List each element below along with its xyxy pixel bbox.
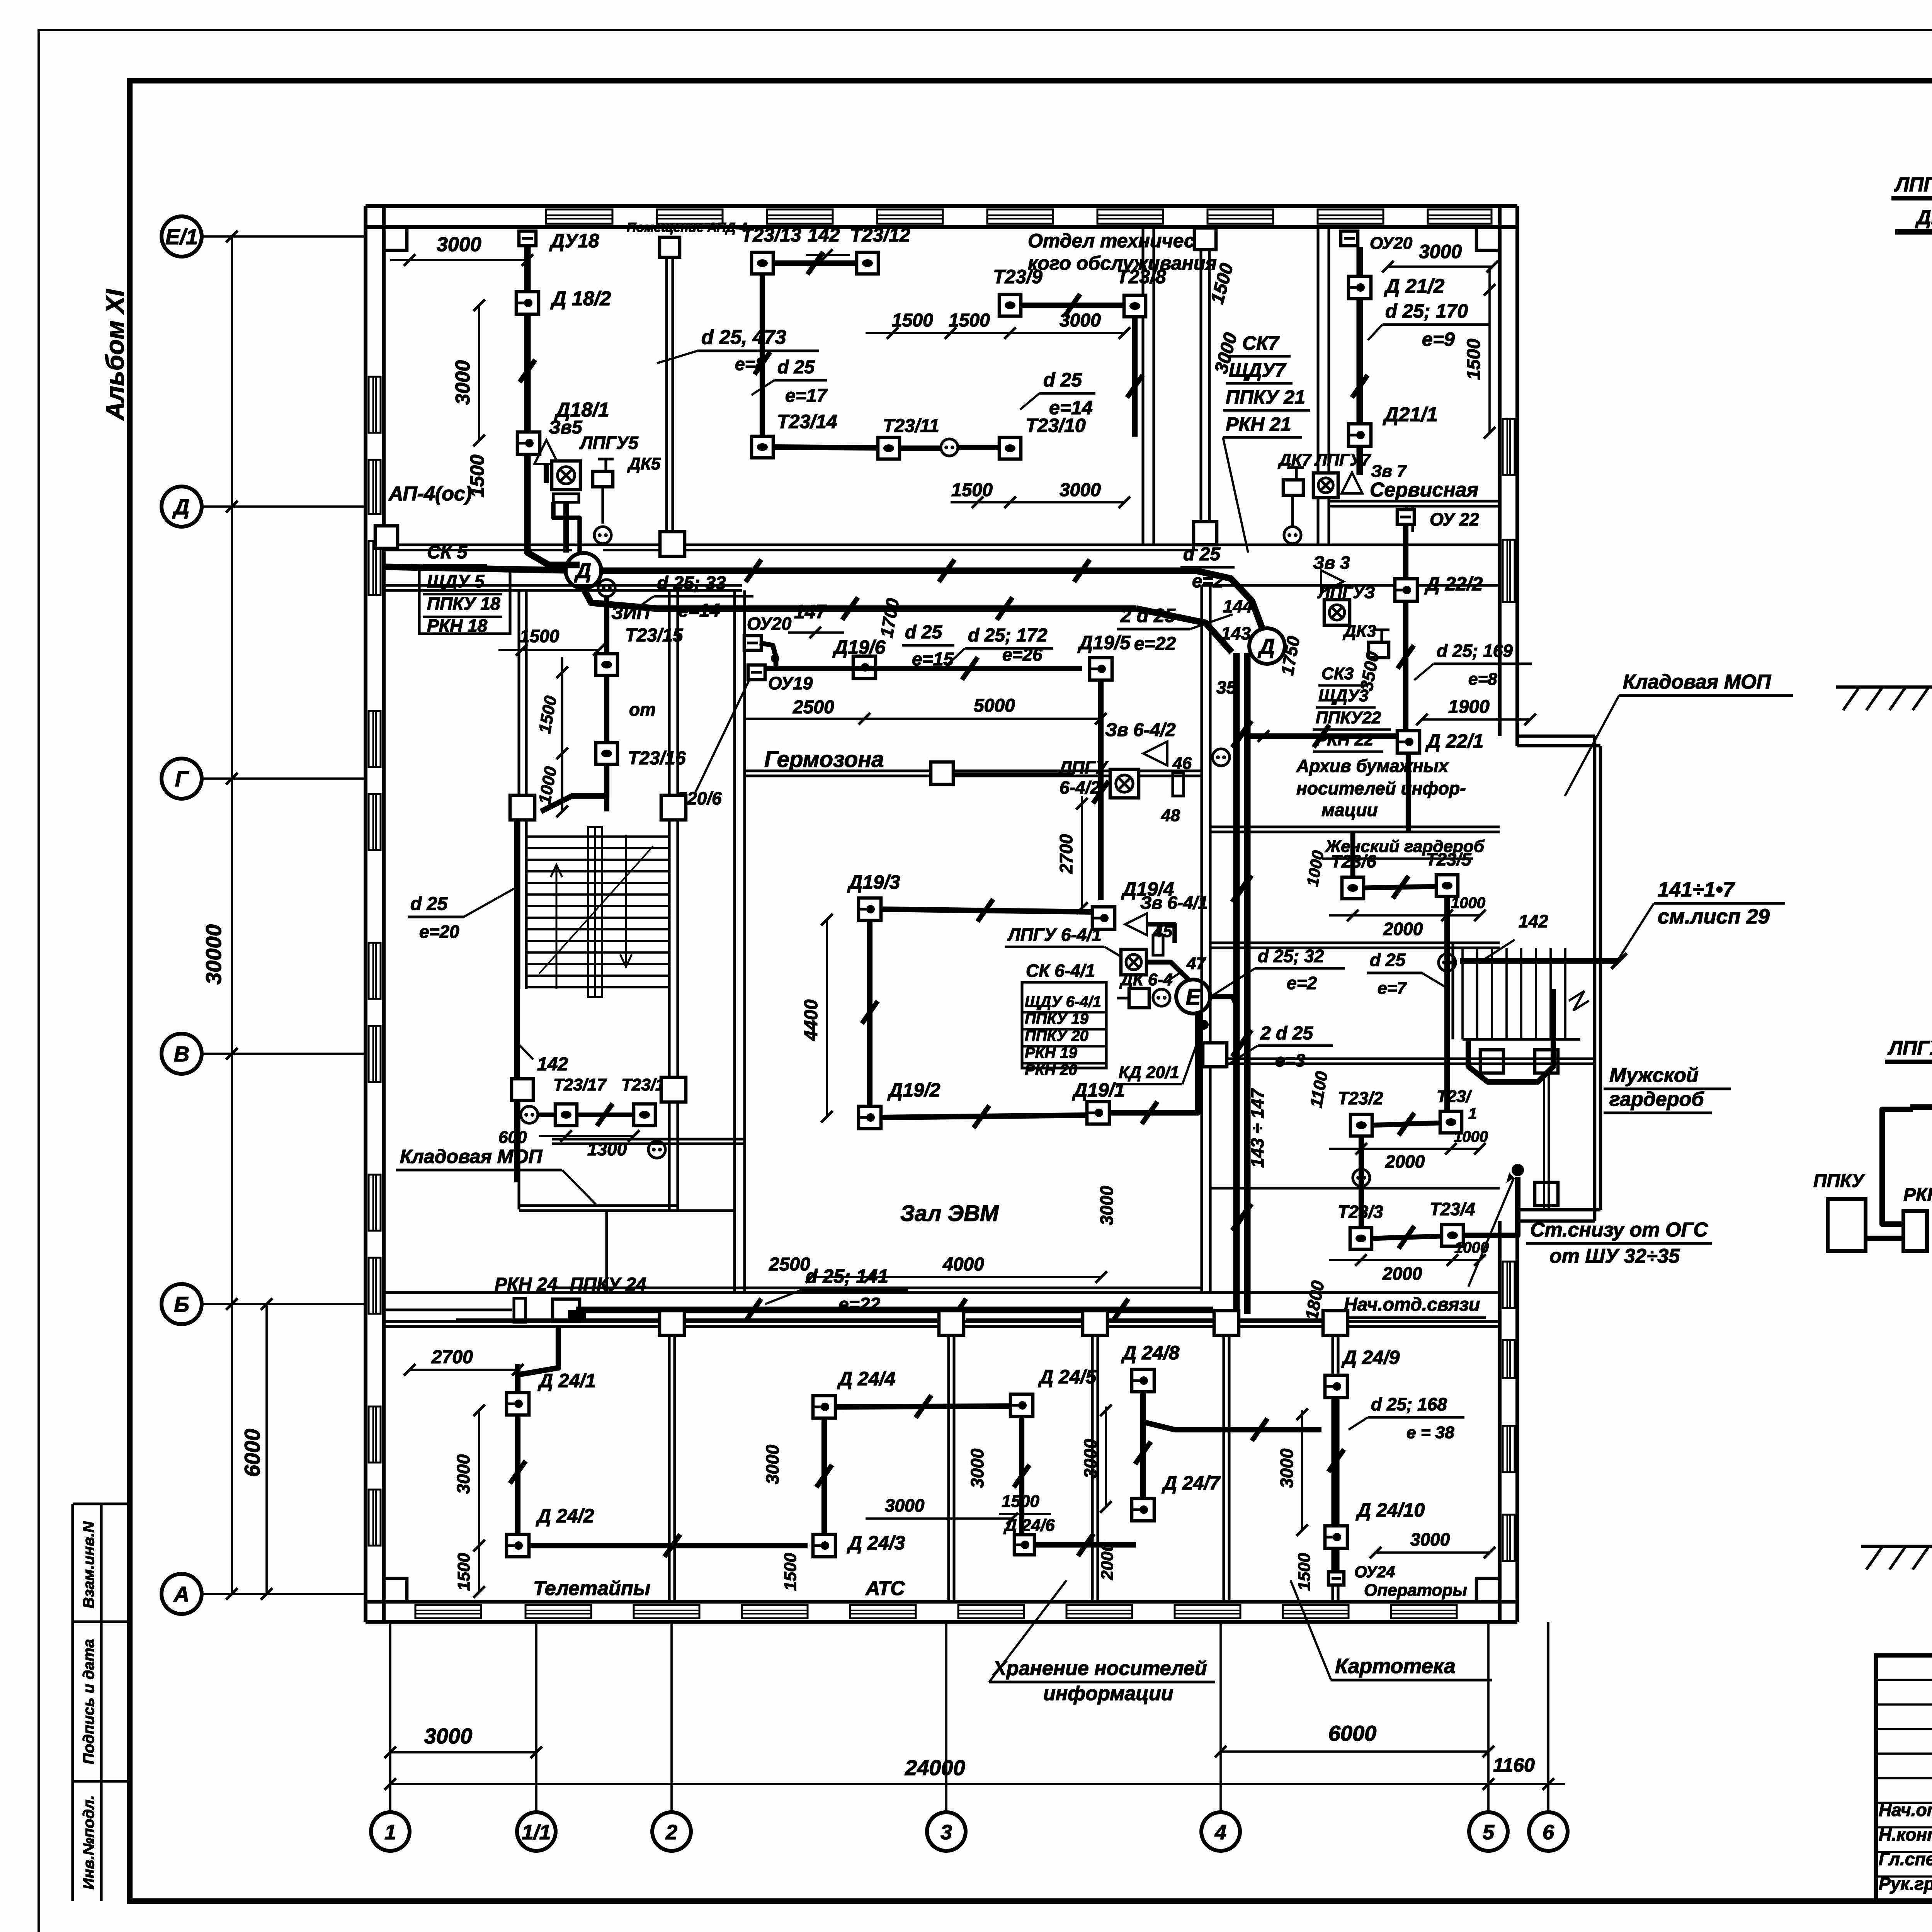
svg-text:46: 46 — [1172, 754, 1192, 773]
svg-text:Т23/: Т23/ — [1437, 1087, 1473, 1106]
teletype T23/16 — [596, 743, 617, 764]
svg-text:d 25; 168: d 25; 168 — [1371, 1394, 1447, 1414]
zip socket — [598, 580, 615, 597]
svg-text:ППКУ 18: ППКУ 18 — [427, 594, 500, 614]
riser D19/5 down — [1098, 680, 1104, 900]
teletype T23/15 — [596, 654, 617, 675]
axis vertical leader lines left — [231, 236, 233, 1594]
svg-text:АТС: АТС — [865, 1577, 905, 1600]
svg-text:Т23/12: Т23/12 — [850, 224, 910, 246]
detector D24/6 — [1014, 1535, 1034, 1555]
svg-text:3000: 3000 — [762, 1444, 782, 1484]
svg-text:ОУ19: ОУ19 — [768, 673, 813, 693]
svg-text:от ШУ 32÷35: от ШУ 32÷35 — [1549, 1245, 1680, 1267]
svg-text:e=8: e=8 — [1468, 670, 1497, 689]
svg-text:Д 24/6: Д 24/6 — [1003, 1516, 1055, 1535]
detector OU20c — [744, 636, 761, 650]
svg-text:ОУ20: ОУ20 — [747, 614, 792, 634]
detector D24/2 — [507, 1534, 529, 1557]
stairs right walls — [1451, 943, 1454, 1039]
wire below node E — [1196, 1014, 1198, 1113]
svg-text:1300: 1300 — [587, 1139, 627, 1159]
svg-text:e=2: e=2 — [1287, 973, 1317, 993]
svg-text:ЛПГУ: ЛПГУ — [1058, 757, 1109, 777]
uzel E ground hatch — [1866, 1546, 1883, 1570]
svg-text:e=26: e=26 — [1002, 645, 1043, 665]
teletype T23/18 — [634, 1104, 655, 1126]
dim 2500 5000 germozona — [745, 718, 1101, 720]
svg-text:d 25: d 25 — [1370, 950, 1406, 970]
svg-text:Архив бумажных: Архив бумажных — [1296, 756, 1449, 776]
wire T23/13 to T23/12 — [773, 260, 857, 266]
detector D19/5 — [1090, 658, 1112, 680]
svg-text:e=22: e=22 — [1134, 634, 1176, 654]
dims zip vert — [561, 657, 563, 811]
corner pilaster bottom-left — [384, 1578, 407, 1602]
riser T23/6 — [1350, 832, 1355, 878]
svg-text:А: А — [173, 1582, 189, 1606]
machine hall interior wall piece — [552, 1138, 745, 1140]
detector D18/1 — [517, 432, 540, 454]
svg-text:ЛПГУЗ: ЛПГУЗ — [1317, 583, 1375, 602]
bell Zv7 — [1342, 473, 1362, 493]
riser servisnaya pair — [1405, 506, 1408, 532]
wire T23/11 socket T23/10 — [900, 446, 941, 451]
svg-text:Помещение АПД-4: Помещение АПД-4 — [627, 220, 747, 235]
bottom trunk cable — [384, 1308, 512, 1311]
svg-text:Сервисная: Сервисная — [1370, 479, 1478, 501]
svg-text:1500: 1500 — [1464, 338, 1484, 380]
outer wall bottom — [366, 1600, 1517, 1604]
svg-text:1000: 1000 — [1454, 1128, 1488, 1145]
svg-text:147: 147 — [794, 601, 827, 622]
dim 1500 zip — [498, 649, 599, 651]
svg-text:1000: 1000 — [1454, 1239, 1489, 1256]
svg-text:Т23/4: Т23/4 — [1430, 1199, 1475, 1219]
svg-text:Д19/2: Д19/2 — [887, 1079, 940, 1101]
svg-text:ДК 6-4: ДК 6-4 — [1119, 970, 1173, 989]
svg-text:e=17: e=17 — [785, 386, 828, 406]
wire T23/9 to T23/8 — [1021, 303, 1124, 308]
riser D24 1-2 — [515, 1415, 520, 1536]
bottom corridor wall north — [384, 1291, 1500, 1294]
svg-text:d 25; 170: d 25; 170 — [1385, 300, 1468, 322]
svg-text:1500: 1500 — [1295, 1553, 1314, 1591]
corridor shelf lines — [456, 1318, 659, 1321]
node E circle — [1176, 980, 1210, 1014]
socket below T23/2 — [1353, 1169, 1370, 1186]
corner pilaster top-right — [1476, 227, 1500, 250]
svg-text:СК3: СК3 — [1321, 664, 1354, 683]
riser T23/8 — [1132, 317, 1138, 437]
svg-text:ЛПГУ; Зв: ЛПГУ; Зв — [1894, 173, 1932, 196]
socket below T23/18 — [648, 1141, 665, 1158]
corner pilaster top-left — [384, 227, 407, 250]
svg-text:Инв.№подл.: Инв.№подл. — [80, 1795, 97, 1889]
svg-text:Зв 7: Зв 7 — [1371, 462, 1407, 481]
svg-text:d 25, 473: d 25, 473 — [701, 326, 786, 349]
svg-text:Подпись и дата: Подпись и дата — [80, 1639, 97, 1764]
svg-text:Т23/9: Т23/9 — [993, 266, 1043, 287]
svg-text:РКН 19: РКН 19 — [1025, 1044, 1078, 1061]
svg-text:1160: 1160 — [1493, 1754, 1535, 1776]
svg-text:24000: 24000 — [905, 1755, 965, 1780]
svg-text:142: 142 — [1519, 911, 1548, 931]
svg-text:Д 24/7: Д 24/7 — [1162, 1472, 1221, 1494]
svg-text:3000: 3000 — [1060, 310, 1101, 331]
svg-text:ЩДУ7: ЩДУ7 — [1229, 359, 1286, 381]
svg-text:2700: 2700 — [1056, 834, 1076, 874]
socket below node D — [1213, 749, 1230, 766]
detector D24/1 — [507, 1393, 529, 1415]
svg-text:1500: 1500 — [454, 1553, 473, 1591]
svg-text:Д 21/2: Д 21/2 — [1384, 275, 1444, 298]
svg-text:600: 600 — [498, 1128, 527, 1147]
svg-text:ОУ 22: ОУ 22 — [1430, 509, 1479, 529]
axis bubble 3 — [927, 1812, 966, 1851]
dim 3000 D21 room top — [1388, 265, 1492, 268]
svg-text:ЛПГУ7: ЛПГУ7 — [1314, 451, 1372, 469]
socket stairs — [1439, 954, 1456, 971]
svg-text:e=7: e=7 — [1378, 979, 1407, 998]
uzel E wire left ppku-rkn — [1866, 1236, 1903, 1241]
teletype T23/6 — [1342, 877, 1364, 899]
axis bubble 1 — [371, 1812, 410, 1851]
svg-text:Д 22/1: Д 22/1 — [1425, 730, 1483, 752]
svg-text:Д 24/3: Д 24/3 — [847, 1532, 905, 1554]
dim 2000 1000 nach — [1329, 1259, 1480, 1261]
axis bubble 6 — [1529, 1812, 1568, 1851]
detector D22/2 — [1395, 579, 1417, 601]
detector OU18 — [519, 231, 536, 246]
axis bubble 5 — [1469, 1812, 1508, 1851]
bottom dim row 6000 — [1221, 1750, 1488, 1753]
axis bubble Е/1 — [162, 216, 202, 257]
corridor trunk cable horizontal — [601, 568, 1198, 574]
svg-text:Операторы: Операторы — [1364, 1581, 1467, 1600]
svg-text:см.лисп 29: см.лисп 29 — [1658, 905, 1770, 928]
svg-text:Д 22/2: Д 22/2 — [1424, 573, 1483, 595]
svg-text:143: 143 — [1221, 623, 1251, 643]
junction dot below E — [1199, 1020, 1209, 1030]
dk DK7 — [1283, 480, 1303, 495]
dim 3000 APD top — [390, 259, 527, 261]
teletype T23/10 — [999, 437, 1021, 459]
svg-text:3000: 3000 — [437, 233, 481, 256]
teletype T23/14 — [752, 436, 773, 458]
right wall windows lower — [1503, 1262, 1515, 1308]
svg-text:АП-4(ос): АП-4(ос) — [388, 483, 472, 505]
svg-text:Д: Д — [172, 495, 189, 519]
detector D22/1 — [1397, 731, 1420, 753]
node D circle right — [1249, 628, 1285, 664]
svg-text:e=20: e=20 — [419, 922, 459, 942]
junction box below E — [1203, 1043, 1227, 1067]
corridor junction boxes — [660, 1311, 684, 1335]
svg-text:Рук.гр.: Рук.гр. — [1879, 1874, 1932, 1894]
svg-text:СК 5: СК 5 — [427, 542, 468, 563]
axis bubble А — [162, 1574, 202, 1614]
svg-text:3000: 3000 — [452, 360, 474, 405]
trunk bend to node D right — [1196, 571, 1263, 630]
svg-text:3000: 3000 — [1080, 1439, 1100, 1478]
svg-text:ЛПГУ; Зв: ЛПГУ; Зв — [1887, 1037, 1932, 1060]
svg-text:мации: мации — [1321, 800, 1378, 820]
svg-text:Телетайпы: Телетайпы — [533, 1577, 650, 1600]
teletype T23/3 — [1350, 1228, 1372, 1249]
detector D24/4 — [813, 1396, 835, 1418]
wire T2317-T2318 — [538, 1112, 556, 1117]
svg-text:144: 144 — [1223, 596, 1253, 616]
dim 2000 1000 muzh — [1329, 1148, 1480, 1150]
zal evm south wall — [552, 1286, 1202, 1289]
svg-text:Т23/16: Т23/16 — [628, 748, 686, 769]
socket at E — [1153, 989, 1170, 1006]
wire D24/6 right — [1034, 1542, 1136, 1548]
detector D19/6 — [853, 656, 876, 679]
dim 4400 vert — [826, 920, 828, 1117]
teletype T23/12 — [857, 252, 878, 274]
svg-text:1500: 1500 — [520, 626, 560, 646]
svg-text:2700: 2700 — [431, 1347, 473, 1367]
germozona west wall — [733, 590, 736, 1293]
dk DK5 — [593, 471, 613, 487]
bottom corridor wall south — [384, 1320, 1500, 1323]
svg-text:ЩДУ3: ЩДУ3 — [1318, 686, 1369, 705]
svg-text:Зв5: Зв5 — [549, 417, 583, 438]
svg-text:ОУ24: ОУ24 — [1354, 1563, 1395, 1581]
lpgu3 — [1324, 600, 1350, 625]
svg-text:Взам.инв.N: Взам.инв.N — [80, 1521, 97, 1608]
dim 3000 vert d24-8 — [1105, 1406, 1107, 1507]
dim 1900 — [1422, 718, 1530, 721]
lobby west wall — [1199, 250, 1202, 545]
detector D24/9 — [1325, 1375, 1347, 1398]
wire D19/3 to D19/4 — [881, 909, 1093, 912]
wire T236-T235 — [1364, 886, 1436, 888]
socket corridor D — [594, 527, 611, 544]
svg-text:2000: 2000 — [1383, 919, 1423, 939]
dim 3000 d24-10 — [1376, 1551, 1490, 1554]
svg-text:Гермозона: Гермозона — [764, 747, 884, 772]
riser T23/13 — [760, 274, 765, 437]
detector D18/2 — [516, 292, 539, 314]
outer wall left — [364, 206, 367, 1622]
svg-text:Г: Г — [175, 767, 189, 791]
svg-text:d 25; 141: d 25; 141 — [806, 1265, 888, 1287]
svg-text:Т23/2: Т23/2 — [1338, 1088, 1383, 1108]
stairs right treads — [1461, 948, 1464, 1039]
svg-text:2 d 25: 2 d 25 — [1260, 1023, 1313, 1044]
detector D19/1 — [1087, 1102, 1109, 1124]
svg-text:3000: 3000 — [1097, 1185, 1117, 1225]
svg-text:1/1: 1/1 — [522, 1821, 551, 1844]
right wall windows upper — [1503, 419, 1515, 475]
partition lobby / D21 room — [1316, 227, 1319, 545]
svg-text:2500: 2500 — [769, 1254, 810, 1275]
teletype T23/11 — [878, 437, 900, 459]
svg-text:Картотека: Картотека — [1335, 1655, 1456, 1678]
upper corridor wall south — [384, 584, 742, 587]
ou24 — [1334, 1548, 1338, 1575]
top wall windows — [546, 209, 612, 224]
detector D19/4 — [1092, 907, 1115, 929]
svg-text:3000: 3000 — [453, 1454, 473, 1494]
svg-text:Т23/5: Т23/5 — [1426, 849, 1472, 869]
svg-text:Зал ЭВМ: Зал ЭВМ — [900, 1201, 999, 1226]
svg-text:142: 142 — [808, 224, 840, 246]
svg-text:6-4/2: 6-4/2 — [1060, 777, 1100, 798]
riser T23/2 down — [1359, 1136, 1364, 1228]
dim 2700 vert — [1081, 796, 1083, 908]
svg-text:3000: 3000 — [967, 1448, 987, 1488]
svg-text:Д: Д — [574, 558, 591, 583]
svg-text:СК7: СК7 — [1242, 332, 1280, 354]
svg-text:от: от — [629, 699, 656, 719]
svg-text:Зв 6-4/1: Зв 6-4/1 — [1140, 893, 1208, 913]
uzel D ground hatch — [1843, 687, 1859, 710]
wire D24/4 to D24/5 — [835, 1406, 1011, 1407]
svg-text:Гл.спец.: Гл.спец. — [1879, 1849, 1932, 1869]
wire D24/8 bend — [1143, 1391, 1198, 1430]
left wall windows — [369, 377, 381, 433]
svg-text:d 25: d 25 — [410, 894, 448, 914]
jbox on hall boundary — [931, 762, 953, 784]
svg-text:143 ÷ 147: 143 ÷ 147 — [1247, 1088, 1267, 1168]
svg-text:КД 20/1: КД 20/1 — [1119, 1063, 1179, 1082]
arrow to junction — [1468, 1178, 1514, 1287]
svg-text:Зв 6-4/2: Зв 6-4/2 — [1105, 720, 1176, 740]
column extension lines — [389, 1622, 391, 1812]
riser D24 4-3 — [821, 1418, 827, 1536]
node D circle left — [566, 553, 601, 588]
detector OU22 — [1397, 510, 1414, 524]
svg-text:4400: 4400 — [801, 999, 821, 1041]
svg-text:1: 1 — [1468, 1105, 1477, 1122]
svg-text:2: 2 — [665, 1821, 677, 1844]
dim 3000 vert d24-9 — [1301, 1410, 1303, 1530]
junction boxes mid walls — [510, 795, 535, 820]
svg-text:Д19/5: Д19/5 — [1077, 632, 1131, 653]
bottom dim row 3000 — [390, 1751, 536, 1753]
svg-text:d 25; 172: d 25; 172 — [968, 625, 1048, 646]
svg-text:1500: 1500 — [466, 454, 488, 497]
svg-text:1500: 1500 — [1002, 1492, 1039, 1511]
svg-text:e=14: e=14 — [1049, 397, 1093, 418]
annex top wall — [1517, 735, 1595, 738]
svg-text:e=22: e=22 — [838, 1294, 880, 1315]
thick line stairs landing — [1460, 958, 1619, 964]
dims Otdel row1 — [866, 332, 1124, 334]
dim 4000 2500 bottom zal — [811, 1276, 1101, 1278]
black junction dot — [1512, 1164, 1524, 1176]
svg-text:d 25: d 25 — [905, 622, 942, 643]
cable d25 e20 riser — [514, 806, 520, 1182]
svg-text:ДУ18: ДУ18 — [549, 230, 599, 252]
riser D24 9-10 — [1333, 1397, 1339, 1526]
outer wall top — [366, 204, 1517, 208]
svg-text:3000: 3000 — [1419, 241, 1462, 262]
wire D19/1 to E riser — [1109, 1110, 1198, 1116]
axis bubble Д — [162, 486, 202, 527]
machine hall north boundary — [745, 769, 1202, 772]
zhensky garderob south wall — [1210, 941, 1500, 944]
svg-text:ППКУ: ППКУ — [1813, 1171, 1866, 1191]
detector D19/3 — [859, 898, 881, 920]
outer wall right main — [1498, 206, 1502, 736]
teletype T23/17 — [555, 1104, 577, 1126]
nach otd svyazi north wall — [1210, 1187, 1500, 1189]
svg-text:Т23/3: Т23/3 — [1338, 1202, 1383, 1222]
svg-text:Д 24/5: Д 24/5 — [1038, 1366, 1097, 1388]
socket near servisnaya — [1284, 527, 1301, 544]
svg-text:142: 142 — [537, 1054, 568, 1075]
stairwell left stringer — [588, 827, 602, 997]
nach otd svyazi west wall — [1209, 1188, 1211, 1293]
svg-text:Т23/15: Т23/15 — [625, 625, 684, 646]
svg-text:4000: 4000 — [942, 1254, 984, 1275]
svg-text:1900: 1900 — [1448, 697, 1490, 717]
svg-text:1500: 1500 — [781, 1553, 800, 1591]
dim 2700 — [410, 1369, 518, 1371]
junction box corridor 1 — [660, 532, 685, 556]
wire slash D18 — [520, 360, 536, 382]
axis bubble Г — [162, 759, 202, 799]
trunk bend at node D left — [583, 588, 1136, 609]
svg-text:Альбом XI: Альбом XI — [100, 289, 129, 421]
dims Otdel row2 — [951, 501, 1124, 503]
annex bottom wall — [1517, 1208, 1600, 1212]
dim 2000 1000 garderob — [1329, 914, 1480, 917]
muzhskoy garderob north wall — [1210, 1057, 1595, 1060]
uzel D ground line — [1836, 685, 1932, 689]
svg-text:ППКУ22: ППКУ22 — [1316, 708, 1381, 727]
svg-text:2 d 25: 2 d 25 — [1120, 605, 1176, 626]
riser T23/15 — [604, 597, 609, 811]
annex jboxes on garderob wall — [1480, 1050, 1503, 1073]
dims D24 left vert — [478, 1410, 480, 1592]
svg-text:ЛПГУ5: ЛПГУ5 — [579, 433, 639, 453]
svg-text:гардероб: гардероб — [1609, 1088, 1704, 1111]
stairwell lower walls — [517, 1097, 520, 1209]
svg-text:Т23/13: Т23/13 — [741, 224, 801, 246]
svg-text:e=9: e=9 — [1422, 328, 1455, 350]
svg-text:Кладовая МОП: Кладовая МОП — [400, 1146, 543, 1167]
svg-text:Нач.отд.связи: Нач.отд.связи — [1344, 1294, 1480, 1315]
stairwell left treads — [526, 835, 669, 838]
axis bubble Б — [162, 1284, 202, 1324]
svg-text:Т23/6: Т23/6 — [1331, 851, 1376, 871]
teletype T23/2 — [1350, 1114, 1372, 1136]
teletype T23/9 — [999, 294, 1021, 316]
svg-text:1000: 1000 — [1451, 895, 1485, 912]
svg-text:5000: 5000 — [974, 696, 1015, 716]
svg-text:3000: 3000 — [424, 1724, 473, 1748]
cable riser D18 — [524, 247, 531, 541]
bottom wall windows — [415, 1605, 481, 1618]
corner pilaster bottom-right — [1476, 1578, 1500, 1602]
socket mid — [941, 439, 958, 456]
svg-text:РКН 21: РКН 21 — [1226, 413, 1291, 435]
wire from ppku24 down — [518, 1327, 558, 1393]
svg-text:ЩДУ 5: ЩДУ 5 — [427, 571, 485, 591]
socket T23 17 left — [521, 1106, 538, 1123]
svg-text:РКН 24: РКН 24 — [495, 1274, 558, 1295]
svg-text:ОУ20: ОУ20 — [1370, 234, 1413, 253]
svg-text:Д 24/4: Д 24/4 — [837, 1368, 895, 1389]
detector D21/2 — [1349, 276, 1371, 299]
wire D19/6 right — [764, 666, 1082, 671]
